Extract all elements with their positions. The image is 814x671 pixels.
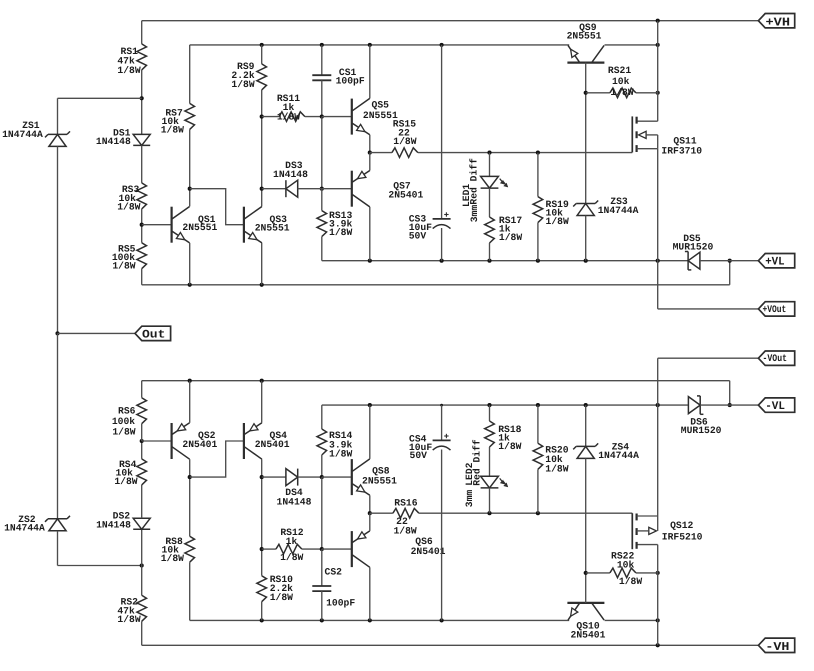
- wire DS4 cathode lead: [298, 476, 322, 478]
- svg-text:1k: 1k: [286, 536, 298, 547]
- wire QS9 base lead: [585, 63, 587, 93]
- resistor RS10: [257, 574, 293, 603]
- wire RS6 top lead: [141, 381, 143, 398]
- wire RS1 top lead: [141, 21, 143, 44]
- terminal flag Out: [135, 326, 171, 341]
- svg-text:1/8W: 1/8W: [117, 65, 140, 76]
- wire DS2 cathode lead: [141, 530, 143, 566]
- junction RS19 top: [536, 151, 540, 155]
- diode DS6 MUR1520: [681, 396, 722, 436]
- svg-text:1/8W: 1/8W: [161, 553, 184, 564]
- svg-text:1/8W: 1/8W: [546, 216, 569, 227]
- junction ZS3 bottom: [584, 259, 588, 263]
- resistor RS21: [608, 65, 636, 98]
- zener ZS3 1N4744A: [573, 196, 638, 216]
- svg-text:+VH: +VH: [766, 15, 791, 29]
- wire RS12 left lead: [262, 548, 276, 550]
- wire QS10 collector to -VH column: [605, 619, 658, 621]
- svg-text:1/8W: 1/8W: [329, 227, 352, 238]
- resistor RS4: [114, 459, 146, 487]
- wire +VL rail: [322, 260, 688, 262]
- wire QS4 collector lead: [261, 459, 263, 477]
- wire QS6 collector lead: [369, 567, 371, 620]
- wire RS8 bottom lead: [189, 562, 191, 620]
- junction QS2 collector node: [188, 475, 192, 479]
- wire Out: [58, 332, 136, 334]
- wire RS22 left lead: [586, 572, 610, 574]
- svg-text:Out: Out: [142, 329, 165, 342]
- terminal flag +VH: [758, 14, 794, 30]
- resistor RS14: [317, 429, 352, 459]
- wire DS4 anode lead: [262, 476, 286, 478]
- wire QS6 base: [322, 548, 352, 550]
- junction RS20 bottom: [536, 511, 540, 515]
- wire QS11 source column: [657, 135, 659, 149]
- svg-text:IRF5210: IRF5210: [662, 532, 703, 543]
- wire ZS3 top lead: [585, 93, 587, 204]
- wire QS6 emitter lead: [369, 513, 371, 531]
- wire QS2 base: [142, 440, 172, 442]
- LED LED2 3mm Red Diff: [464, 439, 507, 507]
- junction CS2/RS12/QS6-base node: [320, 547, 324, 551]
- resistor RS17: [485, 215, 523, 243]
- junction QS5 collector top: [368, 43, 372, 47]
- wire -VH column: [657, 545, 659, 646]
- wire -VH rail: [142, 644, 759, 646]
- wire RS2 to DS2 node: [141, 566, 143, 596]
- wire RS4 top lead: [141, 441, 143, 459]
- svg-text:RS6: RS6: [118, 406, 136, 417]
- svg-text:2N5401: 2N5401: [388, 189, 423, 200]
- transistor QS10 2N5401: [567, 603, 605, 641]
- svg-text:1/8W: 1/8W: [545, 464, 568, 475]
- svg-text:1/8W: 1/8W: [499, 232, 522, 243]
- junction QS7 collector at +VL rail: [368, 259, 372, 263]
- wire ZS4 top lead: [585, 405, 587, 446]
- junction RS17 bottom: [487, 259, 491, 263]
- wire DS2 to RS4: [141, 485, 143, 518]
- junction QS3 collector / DS3 anode: [260, 187, 264, 191]
- transistor QS6 2N5401: [352, 531, 446, 567]
- LED LED1 3mm Red Diff: [461, 158, 507, 222]
- junction RS21 right / QS11 drain: [656, 91, 660, 95]
- svg-text:3mm: 3mm: [464, 490, 475, 508]
- junction -VL node at DS6 anode: [728, 403, 732, 407]
- junction +VL node at DS5 anode: [728, 259, 732, 263]
- junction RS12 left node: [260, 547, 264, 551]
- terminal flag -VH: [758, 638, 794, 654]
- junction CS4 top: [440, 404, 443, 407]
- wire RS1 to DS1: [141, 70, 143, 134]
- wire RS21 right lead: [636, 92, 658, 94]
- wire CS1 column mid: [321, 117, 323, 189]
- wire QS8 collector lead: [369, 405, 371, 459]
- junction RS9 top: [260, 43, 264, 47]
- resistor RS18: [485, 421, 522, 452]
- wire RS18 top lead: [489, 405, 491, 421]
- svg-text:1/8W: 1/8W: [270, 592, 293, 603]
- wire gate drive to QS12: [419, 512, 632, 514]
- wire ZS2 to RS2 node: [58, 565, 142, 567]
- svg-text:1/8W: 1/8W: [114, 476, 137, 487]
- svg-text:Red Diff: Red Diff: [471, 439, 482, 486]
- wire CS2 bottom lead: [321, 591, 323, 620]
- wire RS19 bottom lead: [537, 223, 539, 261]
- svg-text:2N5551: 2N5551: [182, 222, 217, 233]
- zener ZS2 1N4744A: [4, 514, 70, 534]
- wire QS8 base: [322, 476, 352, 478]
- wire RS2 bottom lead: [141, 621, 143, 645]
- junction RS20 top: [536, 403, 540, 407]
- wire QS2 emitter lead: [189, 381, 191, 423]
- junction -VH rail / column: [656, 643, 660, 647]
- resistor RS16: [393, 498, 419, 537]
- wire RS15 left lead: [370, 152, 392, 154]
- junction QS1 base node: [140, 223, 144, 227]
- wire RS22 right lead: [636, 572, 658, 574]
- wire LED1 top lead: [489, 153, 491, 177]
- junction CS3 bottom: [440, 259, 444, 263]
- wire CS4 top lead: [441, 405, 443, 440]
- wire RS18 to LED2: [489, 447, 491, 476]
- wire CS1 to RS11 node: [321, 80, 323, 116]
- junction Out node: [55, 331, 59, 335]
- junction CS1 top: [320, 43, 324, 47]
- junction RS1/DS1/ZS1 node: [140, 96, 144, 100]
- junction LED2 bottom: [487, 511, 491, 515]
- svg-text:2N5401: 2N5401: [571, 630, 606, 641]
- svg-text:1/8W: 1/8W: [117, 614, 140, 625]
- wire RS12 right lead: [302, 548, 322, 550]
- junction DS4 cathode node: [320, 475, 324, 479]
- transistor QS3 2N5551: [244, 207, 290, 243]
- svg-text:1N4744A: 1N4744A: [598, 205, 639, 216]
- wire QS11 drain pin: [637, 120, 658, 122]
- wire RS14 top lead: [321, 405, 323, 429]
- junction RS22 left / QS10 base / ZS4: [584, 571, 588, 575]
- junction QS1 collector node: [188, 187, 192, 191]
- svg-text:2N5551: 2N5551: [362, 476, 397, 487]
- junction RS19 bottom: [536, 259, 540, 263]
- wire QS8 emitter lead: [369, 495, 371, 513]
- svg-text:-VL: -VL: [765, 400, 785, 413]
- junction source column at +VL rail: [656, 259, 660, 263]
- svg-text:10k: 10k: [612, 76, 630, 87]
- svg-text:2N5401: 2N5401: [182, 439, 217, 450]
- transistor QS9 2N5551: [567, 22, 605, 63]
- svg-text:1N4744A: 1N4744A: [4, 522, 45, 533]
- wire RS16 left lead: [370, 512, 393, 514]
- svg-text:1/8W: 1/8W: [329, 448, 352, 459]
- junction QS4 emitter: [260, 379, 264, 383]
- svg-text:3mm: 3mm: [469, 205, 480, 223]
- wire ZS1 top lead: [57, 98, 59, 134]
- wire ZS3 bottom lead: [585, 216, 587, 261]
- wire RS14 to DS4 node: [321, 455, 323, 477]
- junction QS4 collector / DS4 anode: [260, 475, 264, 479]
- resistor RS1: [117, 44, 146, 76]
- wire VH column: [657, 21, 659, 122]
- junction RS10 bottom: [260, 618, 264, 622]
- wire DS5 anode to +VL flag: [700, 260, 759, 262]
- wire QS2 collector lead: [189, 459, 191, 536]
- wire CS3 top lead: [441, 45, 443, 219]
- resistor RS8: [161, 536, 195, 564]
- junction RS22 right / QS12 drain: [656, 571, 660, 575]
- svg-text:+VL: +VL: [765, 256, 784, 269]
- junction QS2 emitter: [188, 379, 192, 383]
- junction CS3 top: [440, 43, 444, 47]
- resistor RS5: [112, 243, 147, 272]
- wire QS12 drain pin: [637, 544, 658, 546]
- resistor RS2: [117, 595, 146, 625]
- svg-text:2N5401: 2N5401: [255, 439, 290, 450]
- wire ZS2 bottom lead: [57, 531, 59, 566]
- wire LED1 to RS17: [489, 188, 491, 217]
- svg-text:RS21: RS21: [608, 65, 631, 76]
- junction CS4 bottom: [440, 618, 444, 622]
- transistor QS1 2N5551: [172, 207, 218, 243]
- svg-text:1/8W: 1/8W: [393, 136, 416, 147]
- svg-text:100pF: 100pF: [336, 75, 365, 86]
- wire -VL rail: [322, 404, 688, 406]
- resistor RS6: [112, 398, 147, 438]
- wire CS2 column mid: [321, 477, 323, 549]
- resistor RS19: [533, 197, 569, 228]
- capacitor CS4 10uF: [409, 434, 451, 462]
- wire bottom emitter rail: [142, 380, 730, 382]
- wire QS1 emitter lead: [189, 243, 191, 285]
- junction QS1 emitter: [188, 283, 192, 287]
- wire to ZS1: [58, 97, 142, 99]
- svg-text:IRF3710: IRF3710: [661, 146, 702, 157]
- wire ZS2 column: [57, 333, 59, 518]
- junction RS21 left / QS9 base / ZS3: [584, 91, 588, 95]
- wire QS3 emitter lead: [261, 243, 263, 285]
- svg-text:2N5551: 2N5551: [567, 31, 602, 42]
- wire +VH rail: [142, 20, 759, 22]
- resistor RS13: [317, 210, 352, 238]
- svg-text:QS12: QS12: [670, 520, 693, 531]
- resistor RS11: [277, 93, 305, 122]
- wire QS7 emitter lead: [369, 153, 371, 171]
- wire LED2 bottom lead: [489, 488, 491, 513]
- wire RS13 bottom lead: [321, 237, 323, 261]
- wire to RS13: [321, 189, 323, 211]
- svg-text:1/8W: 1/8W: [393, 526, 416, 537]
- terminal flag +VOut: [758, 302, 794, 316]
- wire ZS4 bottom lead: [585, 458, 587, 573]
- wire link QS1 collector to QS3 base: [190, 189, 244, 225]
- MOSFET QS12 IRF5210: [632, 513, 702, 549]
- diode DS2 1N4148: [96, 511, 150, 531]
- svg-text:1N4148: 1N4148: [277, 497, 312, 508]
- junction QS3 emitter: [260, 283, 264, 287]
- wire QS5 collector lead: [369, 45, 371, 99]
- transistor QS7 2N5401: [352, 171, 424, 207]
- svg-text:1/8W: 1/8W: [619, 576, 642, 587]
- wire QS3 collector lead: [261, 189, 263, 207]
- wire RS6 bottom lead: [141, 424, 143, 441]
- wire RS9 top lead: [261, 45, 263, 64]
- wire CS3 bottom lead: [441, 228, 443, 261]
- body-diode arrow of QS12: [637, 527, 657, 534]
- svg-text:50V: 50V: [410, 450, 428, 461]
- wire RS20 top lead: [537, 405, 539, 443]
- wire QS10 base lead: [585, 573, 587, 603]
- wire QS11 source pin: [637, 148, 658, 150]
- junction QS2 base node: [140, 439, 144, 443]
- wire RS20 bottom lead: [537, 469, 539, 513]
- svg-text:1/8W: 1/8W: [610, 87, 633, 98]
- zener ZS4 1N4744A: [573, 442, 639, 462]
- resistor RS15: [392, 119, 418, 158]
- wire QS7 collector lead: [369, 207, 371, 261]
- svg-text:-VH: -VH: [765, 640, 789, 654]
- resistor RS20: [533, 443, 569, 474]
- junction QS9 collector at VH column: [656, 43, 660, 47]
- wire VH2 rail: [190, 44, 570, 46]
- wire RS9 to QS3 collector node: [261, 90, 263, 189]
- svg-text:2N5551: 2N5551: [255, 223, 290, 234]
- transistor QS5 2N5551: [352, 98, 398, 134]
- wire RS7 column top: [189, 45, 191, 104]
- junction CS1/RS11/QS5-base node: [320, 115, 324, 119]
- wire QS9 collector to VH column: [605, 44, 658, 46]
- svg-text:1N4744A: 1N4744A: [598, 450, 639, 461]
- wire gate drive to QS11: [418, 152, 632, 154]
- svg-text:1/8W: 1/8W: [117, 201, 140, 212]
- wire ZS1 to Out node: [57, 146, 59, 333]
- transistor QS4 2N5401: [244, 423, 290, 459]
- wire QS5 base: [322, 116, 352, 118]
- svg-text:MUR1520: MUR1520: [673, 242, 714, 253]
- capacitor CS2 100pF: [312, 566, 355, 608]
- wire DS3 anode lead: [262, 188, 286, 190]
- svg-text:MUR1520: MUR1520: [681, 425, 722, 436]
- wire RS17 bottom lead: [489, 243, 491, 261]
- wire RS7 to QS1 collector: [189, 129, 191, 206]
- resistor RS9: [231, 61, 266, 90]
- zener ZS1 1N4744A: [2, 120, 70, 146]
- wire RS10 bottom lead: [261, 602, 263, 621]
- svg-text:1/8W: 1/8W: [112, 261, 135, 272]
- svg-text:Red Diff: Red Diff: [469, 158, 480, 205]
- wire DS3 cathode lead: [298, 188, 322, 190]
- junction QS6 collector bottom: [368, 618, 372, 622]
- svg-text:10k: 10k: [617, 560, 635, 571]
- svg-text:50V: 50V: [409, 230, 427, 241]
- junction DS2/RS2/ZS2 node: [140, 563, 144, 567]
- svg-text:CS2: CS2: [325, 566, 343, 577]
- wire QS7 base: [322, 188, 352, 190]
- diode DS1 1N4148: [96, 127, 150, 147]
- wire DS6 cathode to -VL flag: [700, 404, 758, 406]
- wire QS1 base: [142, 224, 172, 226]
- capacitor CS1 100pF: [312, 67, 365, 86]
- wire CS1 top lead: [321, 45, 323, 75]
- wire QS12 source column: [657, 516, 659, 531]
- wire source to +VOut corner: [657, 149, 659, 309]
- svg-text:1N4148: 1N4148: [273, 169, 308, 180]
- svg-text:1/8W: 1/8W: [112, 426, 135, 437]
- wire RS21 left lead: [586, 92, 610, 94]
- svg-text:100pF: 100pF: [326, 597, 355, 608]
- resistor RS22: [610, 551, 642, 588]
- junction RS9/RS11 node: [260, 115, 264, 119]
- svg-text:RS16: RS16: [394, 498, 417, 509]
- wire QS12 source pin: [637, 515, 658, 517]
- junction QS8/QS6 emitters with RS16: [368, 511, 372, 515]
- junction +VH rail / QS11 drain column: [656, 19, 660, 23]
- svg-text:1/8W: 1/8W: [498, 441, 521, 452]
- resistor RS12: [276, 527, 304, 563]
- junction RS18 top: [487, 403, 491, 407]
- diode DS4 1N4148: [277, 469, 312, 508]
- wire RS11 left lead: [262, 116, 279, 118]
- svg-text:1/8W: 1/8W: [277, 112, 300, 123]
- svg-text:1N4148: 1N4148: [96, 520, 131, 531]
- junction ZS4 top: [584, 403, 588, 407]
- resistor RS3: [117, 183, 146, 213]
- svg-text:1N4148: 1N4148: [96, 136, 131, 147]
- wire emitter rail: [142, 284, 730, 286]
- wire link QS2 collector to QS4 base: [190, 441, 244, 477]
- capacitor CS3 10uF: [409, 212, 451, 241]
- svg-text:1/8W: 1/8W: [231, 79, 254, 90]
- svg-text:-VOut: -VOut: [763, 354, 788, 365]
- resistor RS7: [161, 103, 195, 135]
- terminal flag -VL: [758, 398, 794, 413]
- svg-text:+VOut: +VOut: [763, 305, 787, 316]
- wire RS19 top lead: [537, 153, 539, 197]
- svg-text:2N5401: 2N5401: [411, 546, 446, 557]
- wire RS10 to QS4 collector node: [261, 477, 263, 576]
- wire QS4 emitter lead: [261, 381, 263, 423]
- wire emitter rail riser: [729, 261, 731, 285]
- transistor QS8 2N5551: [352, 459, 397, 495]
- body-diode arrow of QS11: [639, 131, 658, 138]
- junction QS5/QS7 emitters with RS15: [368, 151, 372, 155]
- terminal flag +VL: [758, 254, 794, 269]
- wire CS2 top lead: [321, 549, 323, 586]
- MOSFET QS11 IRF3710: [632, 116, 702, 156]
- diode DS3 1N4148: [273, 160, 308, 197]
- terminal flag -VOut: [758, 351, 794, 365]
- diode DS5 MUR1520: [673, 233, 714, 270]
- wire RS11 right lead: [305, 116, 322, 118]
- wire +VOut stub: [658, 308, 759, 310]
- junction CS2 bottom: [320, 618, 324, 622]
- wire RS3 to RS5: [141, 209, 143, 243]
- junction LED1 top: [487, 151, 491, 155]
- wire -VH2 rail: [190, 619, 570, 621]
- junction source column at -VL rail: [656, 403, 660, 407]
- transistor QS2 2N5401: [172, 423, 218, 459]
- junction QS10 collector at column: [656, 618, 660, 622]
- svg-text:1/8W: 1/8W: [280, 552, 303, 563]
- wire source to -VOut corner: [657, 358, 659, 516]
- svg-text:1/8W: 1/8W: [161, 125, 184, 136]
- wire CS4 bottom lead: [441, 450, 443, 621]
- svg-text:1N4744A: 1N4744A: [2, 129, 43, 140]
- wire bottom emitter rail riser: [729, 381, 731, 405]
- wire QS5 emitter lead: [369, 135, 371, 153]
- junction QS8 collector at -VL rail: [368, 403, 372, 407]
- junction DS3 cathode node: [320, 187, 324, 191]
- wire -VOut stub: [658, 357, 759, 359]
- wire RS5 to emitter rail: [141, 269, 143, 285]
